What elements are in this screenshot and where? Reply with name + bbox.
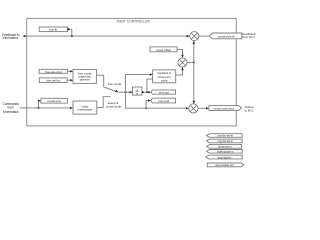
svg-text:pos-cmd: pos-cmd: [158, 99, 169, 103]
wire free-pos-cmd to planner: [68, 70, 71, 72]
arrowhead into summing junction C: [186, 107, 189, 109]
svg-text:index-pulse-in: index-pulse-in: [217, 150, 234, 154]
svg-text:interpolator: interpolator: [77, 107, 92, 111]
box free mode trajectory planner: [73, 70, 96, 84]
arrowhead into d/dt: [130, 91, 133, 93]
arrowhead into vel-cmd flag: [148, 91, 151, 93]
svg-text:from: from: [7, 105, 14, 109]
wire feedback rail to exit arrow: [25, 35, 190, 37]
flag free-pos-cmd: [39, 69, 68, 73]
wire A to motor-pos-fb flag: [199, 35, 210, 37]
label Feedback to Kinematics: [2, 33, 20, 40]
flag motor-pos-cmd: [209, 106, 242, 111]
svg-text:Kinematics: Kinematics: [3, 36, 19, 40]
svg-text:motor-pos-cmd: motor-pos-cmd: [214, 107, 235, 111]
svg-text:free mode: free mode: [108, 82, 122, 86]
wire d/dt output: [141, 91, 144, 93]
arrowhead switch arm to common: [115, 90, 118, 92]
arrowhead up into A bottom: [193, 41, 195, 44]
box cubic interpolator: [73, 101, 97, 114]
label Feedback from M.C.: [242, 32, 256, 39]
junction coarse-pos tap: [38, 107, 40, 109]
svg-text:coarse pos: coarse pos: [47, 99, 61, 103]
wire riser up to backlash input: [126, 75, 151, 93]
flag joint-pos-fb: [39, 27, 67, 32]
wire pos-cmd tap riser: [146, 101, 148, 109]
summing junction B: [178, 58, 187, 67]
arrowhead into A left: [187, 35, 190, 37]
label Output to M.C.: [245, 105, 255, 112]
flag motor-pos-fb: [209, 33, 241, 39]
flag coarse pos: [41, 98, 68, 103]
svg-text:amp-enable-out: amp-enable-out: [215, 163, 233, 167]
junction: [71, 35, 73, 37]
junction rail1: [125, 91, 127, 93]
svg-text:pos-fb: pos-fb: [49, 28, 57, 32]
svg-text:motor-pos-fb: motor-pos-fb: [218, 34, 235, 38]
arrowhead at flag motor-pos-cmd: [206, 107, 209, 109]
legend flag amp-fault-in: [206, 155, 242, 159]
svg-text:coord mode: coord mode: [106, 105, 122, 109]
wire riser to coarse pos flag: [38, 101, 40, 108]
label teleop & coord mode: [106, 101, 122, 108]
box d/dt: [133, 87, 142, 95]
label Commands from Kinematics: [3, 102, 20, 114]
wire vertical A-bottom to C-top: [193, 41, 195, 104]
legend flag index-pulse-in: [207, 150, 243, 154]
arrowhead d/dt output: [142, 91, 145, 93]
flag vel-cmd: [151, 90, 176, 94]
wire backlash out to B bottom: [176, 68, 183, 76]
svg-text:free-pos-cmd: free-pos-cmd: [45, 70, 62, 74]
svg-text:neg-lim-sw-in: neg-lim-sw-in: [217, 139, 233, 143]
svg-text:comp: comp: [161, 80, 168, 83]
svg-text:from M.C.: from M.C.: [242, 35, 255, 39]
summing junction C: [189, 104, 198, 113]
switch arm: [104, 87, 117, 92]
svg-text:pos-lim-sw-in: pos-lim-sw-in: [218, 134, 234, 138]
wire switch common rail: [118, 91, 132, 93]
wire to vel-cmd junction: [145, 91, 149, 93]
junction vel tap: [146, 91, 148, 93]
wire riser down to lower rail: [126, 92, 187, 108]
svg-text:amp-fault-in: amp-fault-in: [218, 155, 232, 159]
arrowhead down into B top: [181, 55, 183, 58]
svg-text:screw error: screw error: [157, 75, 171, 79]
arrowhead into pos-cmd flag: [148, 99, 151, 101]
arrowhead exit left: [22, 35, 25, 37]
svg-text:dt: dt: [136, 93, 138, 96]
wire interpolator output to switch contact B: [97, 97, 111, 108]
svg-text:to M.C.: to M.C.: [245, 108, 255, 112]
svg-text:motor-offset: motor-offset: [156, 48, 171, 52]
legend flag neg-lim-sw-in: [207, 139, 243, 143]
box motor-offset: [150, 47, 177, 52]
arrowhead into cubic interpolator: [70, 107, 73, 109]
arrowhead into planner lower input: [70, 79, 73, 81]
svg-text:JOINT CONTROLLER: JOINT CONTROLLER: [116, 20, 150, 24]
flag pos-cmd: [151, 98, 176, 103]
wire free-vel-lim to planner: [67, 79, 70, 81]
wire riser flag to feedback rail: [70, 29, 71, 36]
summing junction A: [190, 32, 199, 41]
arrowhead into backlash upper input: [150, 73, 153, 75]
legend flag pos-lim-sw-in: [207, 134, 243, 138]
svg-text:planner: planner: [80, 78, 90, 82]
title JOINT CONTROLLER: [116, 20, 150, 24]
legend flag home-sw-in: [207, 145, 242, 149]
wire planner output drop to switch contact A: [96, 75, 103, 87]
arrowhead up into B bottom: [181, 67, 183, 70]
junction pos-cmd tap: [145, 107, 147, 109]
wire B right to vertical: [187, 62, 194, 64]
flag free-vel-lim: [39, 78, 67, 83]
svg-text:vel-cmd: vel-cmd: [159, 91, 169, 95]
svg-text:home-sw-in: home-sw-in: [218, 145, 232, 149]
arrow into flag joint-pos-fb: [68, 28, 71, 31]
box backlash & screw error comp: [153, 70, 176, 83]
label free mode: [108, 82, 122, 86]
arrowhead into coarse pos flag: [38, 100, 41, 102]
legend flag amp-enable-out: [207, 163, 244, 167]
arrowhead into planner top input: [70, 70, 73, 72]
svg-text:free-vel-lim: free-vel-lim: [46, 79, 61, 83]
wire command rail: [20, 107, 71, 109]
wire motor-offset to B top: [177, 49, 183, 57]
svg-text:backlash &: backlash &: [158, 71, 171, 75]
arrowhead down into C top: [193, 101, 195, 104]
wire riser vel to backlash lower input: [147, 79, 153, 92]
junction B output: [193, 62, 195, 64]
outer box JOINT CONTROLLER: [27, 18, 237, 126]
svg-text:Kinematics: Kinematics: [3, 110, 19, 114]
wire C to motor-pos-cmd flag: [198, 107, 206, 109]
